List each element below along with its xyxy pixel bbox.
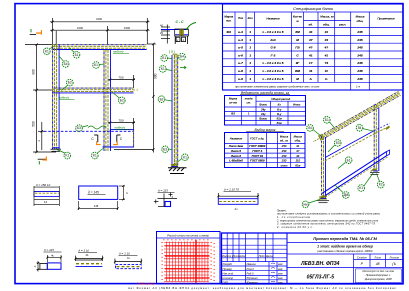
plan middle post xyxy=(103,50,105,151)
svg-text:245: 245 xyxy=(356,38,362,42)
svg-text:расстановка и баланс клапана к: расстановка и баланс клапана крепл. 2008… xyxy=(317,249,374,253)
svg-text:6М: 6М xyxy=(295,30,300,34)
3d right post xyxy=(373,105,375,172)
svg-text:Дата: Дата xyxy=(265,255,273,258)
svg-text:1: 1 xyxy=(249,46,251,50)
svg-text:Лист 4мм: Лист 4мм xyxy=(228,144,244,148)
svg-text:б1м: б1м xyxy=(277,117,282,121)
svg-text:Спецификация балок: Спецификация балок xyxy=(293,6,334,11)
svg-text:( a ): ( a ) xyxy=(169,50,175,54)
svg-text:Б2: Б2 xyxy=(160,97,164,101)
svg-text:1: 1 xyxy=(249,69,251,73)
svg-text:Масса, кг: Масса, кг xyxy=(320,15,334,19)
title block xyxy=(222,233,404,284)
svg-text:ГОСТ 8509: ГОСТ 8509 xyxy=(250,159,265,163)
plan bottom-right rail outline xyxy=(110,130,133,147)
svg-text:ммг: ммг xyxy=(278,272,283,275)
3d left post xyxy=(321,137,323,199)
svg-text:245: 245 xyxy=(356,77,362,81)
svg-text:набел/у: набел/у xyxy=(113,50,124,54)
svg-text:05ГЛ3-ЛГ-5: 05ГЛ3-ЛГ-5 xyxy=(307,274,335,280)
svg-text:L-40x40x5: L-40x40x5 xyxy=(263,30,284,34)
svg-text:11: 11 xyxy=(309,69,312,73)
detail B plate xyxy=(79,186,118,199)
svg-text:ммг: ммг xyxy=(278,277,283,280)
svg-text:K1: K1 xyxy=(65,154,69,158)
plan inner dim (right lower) xyxy=(108,118,135,131)
svg-text:б4: б4 xyxy=(358,126,362,130)
svg-text:L-40x40x5: L-40x40x5 xyxy=(263,61,284,65)
svg-text:б1м: б1м xyxy=(277,121,282,125)
svg-text:4?: 4? xyxy=(308,46,313,50)
svg-text:Выбор марок: Выбор марок xyxy=(255,128,276,132)
svg-text:итог: итог xyxy=(281,163,288,167)
svg-text:1: 1 xyxy=(249,61,251,65)
svg-text:Разраб.: Разраб. xyxy=(223,262,233,266)
svg-text:1600: 1600 xyxy=(77,26,83,30)
reinforcement mesh box xyxy=(157,232,221,284)
svg-text:б3: б3 xyxy=(336,141,340,145)
svg-text:С-9: С-9 xyxy=(271,46,276,50)
plan left dimension line xyxy=(25,45,56,152)
svg-text:41: 41 xyxy=(296,144,300,148)
svg-text:Итог: Итог xyxy=(293,103,301,107)
svg-text:М: М xyxy=(296,77,299,81)
svg-text:набел/у: набел/у xyxy=(115,126,126,130)
svg-text:Юрченко: Юрченко xyxy=(247,280,259,284)
elevation column xyxy=(171,55,173,167)
svg-text:Кол-во: Кол-во xyxy=(293,15,303,19)
svg-text:ГИП: ГИП xyxy=(223,280,228,284)
svg-text:145: 145 xyxy=(94,204,99,208)
svg-text:ммг: ммг xyxy=(278,281,283,284)
svg-text:250: 250 xyxy=(281,149,287,153)
svg-text:Б2: Б2 xyxy=(120,99,124,103)
svg-text:750: 750 xyxy=(118,75,123,79)
svg-text:и-5: и-5 xyxy=(238,46,243,50)
svg-text:245: 245 xyxy=(356,61,362,65)
svg-text:4ч: 4ч xyxy=(234,207,238,211)
svg-text:1500: 1500 xyxy=(124,26,130,30)
svg-text:110: 110 xyxy=(296,159,301,163)
svg-text:245: 245 xyxy=(356,30,362,34)
svg-text:L-40x40x5: L-40x40x5 xyxy=(263,77,284,81)
svg-text:41: 41 xyxy=(324,30,329,34)
svg-text:и-7: и-7 xyxy=(238,61,243,65)
svg-text:Листов: Листов xyxy=(388,255,399,259)
svg-text:?4: ?4 xyxy=(324,61,328,65)
svg-text:Б1: Б1 xyxy=(162,56,166,60)
svg-text:Лист 6: Лист 6 xyxy=(230,154,241,158)
svg-text:K1: K1 xyxy=(161,67,165,71)
svg-text:ст.: ст. xyxy=(246,101,251,105)
svg-text:Стадия: Стадия xyxy=(357,255,367,259)
svg-text:245: 245 xyxy=(356,46,362,50)
plan post bases xyxy=(51,149,62,151)
plan top beam xyxy=(52,44,147,46)
svg-text:общ.: общ. xyxy=(323,23,330,27)
bottom extension line to right dim xyxy=(114,149,153,151)
svg-text:47: 47 xyxy=(308,38,313,42)
svg-text:ФЗ: ФЗ xyxy=(231,112,235,116)
svg-text:Б-у: Б-у xyxy=(277,108,282,112)
svg-text:Б1: Б1 xyxy=(325,118,329,122)
svg-text:1: 1 xyxy=(249,30,251,34)
svg-text:расч.: расч. xyxy=(338,23,346,27)
svg-text:ГОСТ 19: ГОСТ 19 xyxy=(252,154,264,158)
svg-text:1 этап: найдено время на обмер: 1 этап: найдено время на обмер xyxy=(317,245,373,249)
svg-text:900: 900 xyxy=(154,73,158,79)
svg-text:и-6: и-6 xyxy=(238,53,243,57)
plan green element labels xyxy=(44,48,51,55)
svg-text:C - C: C - C xyxy=(176,20,184,24)
svg-text:нм: нм xyxy=(304,203,308,207)
3d middle rail dashed xyxy=(325,131,374,158)
svg-text:Общий расход: Общий расход xyxy=(271,97,290,101)
svg-text:ГОСТ и др.: ГОСТ и др. xyxy=(250,137,264,141)
svg-text:250: 250 xyxy=(281,154,287,158)
svg-text:Проект переезда ТМ4. № 05-ГМ: Проект переезда ТМ4. № 05-ГМ xyxy=(313,236,377,241)
svg-text:Б4: Б4 xyxy=(64,62,68,66)
svg-text:поз.: поз. xyxy=(226,19,232,23)
svg-text:K1: K1 xyxy=(183,155,187,159)
svg-text:ГОСТ 19903: ГОСТ 19903 xyxy=(249,144,265,148)
svg-text:Б3: Б3 xyxy=(163,147,167,151)
svg-text:ед.: ед. xyxy=(309,23,313,27)
svg-text:2x4: 2x4 xyxy=(269,38,275,42)
svg-text:№док: №док xyxy=(239,255,246,258)
svg-text:б4: б4 xyxy=(308,126,312,130)
orange fragment mark top-left xyxy=(30,34,36,36)
svg-text:24у: 24у xyxy=(260,108,266,112)
svg-text:Г-2: Г-2 xyxy=(271,53,276,57)
svg-text:Всего: Всего xyxy=(259,117,267,121)
3d top rail xyxy=(319,91,399,136)
svg-text:при монтаже элементов рамы сва: при монтаже элементов рамы сварное соеди… xyxy=(235,85,320,89)
svg-text:1: 1 xyxy=(249,77,251,81)
svg-text:Кол: Кол xyxy=(248,16,253,20)
svg-text:Расход стали на сетку и анкер: Расход стали на сетку и анкер xyxy=(167,233,209,237)
svg-text:K2: K2 xyxy=(379,183,383,187)
svg-text:Поз: Поз xyxy=(238,16,244,20)
svg-text:д = 115: д = 115 xyxy=(44,248,54,252)
3d post bases xyxy=(318,173,380,203)
svg-text:245: 245 xyxy=(356,53,362,57)
svg-text:ВМ: ВМ xyxy=(295,69,300,73)
svg-text:ммг: ммг xyxy=(278,263,283,266)
svg-text:4?: 4? xyxy=(323,46,328,50)
svg-text:Лист 5: Лист 5 xyxy=(230,149,241,153)
svg-text:Провер.: Провер. xyxy=(223,267,233,271)
svg-text:1?: 1? xyxy=(309,61,313,65)
svg-text:48: 48 xyxy=(376,262,380,266)
svg-text:д = 1.15 Гй: д = 1.15 Гй xyxy=(224,188,239,192)
svg-text:41: 41 xyxy=(308,30,313,34)
svg-text:М: М xyxy=(296,38,299,42)
svg-text:Раб.й: Раб.й xyxy=(247,271,255,275)
svg-text:1: 1 xyxy=(249,38,251,42)
3d bottom plank (blue band) xyxy=(322,152,387,194)
svg-text:ГОСТ 4: ГОСТ 4 xyxy=(252,149,262,153)
svg-text:общ.: общ. xyxy=(357,19,364,23)
svg-text:и-3: и-3 xyxy=(238,30,243,34)
svg-text:245: 245 xyxy=(356,69,362,73)
orange fragment mark bottom-left xyxy=(38,158,46,160)
svg-text:и-4: и-4 xyxy=(238,38,243,42)
svg-text:ДМ: ДМ xyxy=(343,193,348,197)
svg-text:Название: Название xyxy=(266,17,280,21)
svg-text:Б1: Б1 xyxy=(347,158,351,162)
svg-text:5х100 шучйчдт: 5х100 шучйчдт xyxy=(137,282,156,286)
mesh red dots xyxy=(162,239,215,283)
svg-text:эл-та: эл-та xyxy=(229,101,237,105)
svg-text:24у: 24у xyxy=(260,112,266,116)
svg-text:ммг: ммг xyxy=(278,268,283,271)
svg-text:11: 11 xyxy=(325,69,328,73)
mesh red grid xyxy=(164,242,209,282)
svg-text:3100: 3100 xyxy=(96,17,102,21)
svg-text:Б4: Б4 xyxy=(180,55,184,59)
svg-text:Б-у: Б-у xyxy=(277,112,282,116)
svg-text:общ.: общ. xyxy=(295,139,302,143)
svg-text:900: 900 xyxy=(32,69,36,75)
svg-text:(Ъ: (Ъ xyxy=(392,262,396,266)
svg-text:Примечание: Примечание xyxy=(377,17,395,21)
svg-text:L-50x50x5: L-50x50x5 xyxy=(229,159,243,163)
svg-text:д = 145: д = 145 xyxy=(88,191,99,195)
svg-text:ед., кг: ед., кг xyxy=(280,139,289,143)
svg-text:Лист: Лист xyxy=(373,255,382,259)
3d green labels xyxy=(307,125,314,132)
svg-text:Ант Формат А3 (ЛЕВЗ.ВН.ФПЗ4 д: Ант Формат А3 (ЛЕВЗ.ВН.ФПЗ4 документ: не… xyxy=(128,286,396,290)
svg-text:Масса: Масса xyxy=(356,15,365,19)
svg-text:750: 750 xyxy=(118,118,123,122)
svg-text:ЛЕВЗ.ВН. ФПЗ4: ЛЕВЗ.ВН. ФПЗ4 xyxy=(300,261,340,267)
svg-text:1: 1 xyxy=(249,53,251,57)
svg-text:и-8: и-8 xyxy=(238,69,243,73)
svg-text:41: 41 xyxy=(324,53,329,57)
svg-text:б1м: б1м xyxy=(295,163,300,167)
svg-text:Институт по дип. ин-тов: Институт по дип. ин-тов xyxy=(363,270,395,273)
svg-text:K1: K1 xyxy=(94,63,98,67)
elevation C-C section detail xyxy=(161,25,170,44)
specification table xyxy=(223,4,404,90)
svg-text:набел/у: набел/у xyxy=(59,96,70,100)
svg-text:Юрченко: Юрченко xyxy=(247,276,259,280)
section marks C-C in plan xyxy=(94,135,120,142)
svg-text:Иванов: Иванов xyxy=(247,262,257,266)
plan view dimension lines top xyxy=(50,18,150,47)
svg-text:Б3: Б3 xyxy=(77,126,81,130)
svg-text:14: 14 xyxy=(44,200,48,204)
svg-text:Название: Название xyxy=(230,137,243,141)
svg-text:и-9: и-9 xyxy=(238,77,243,81)
svg-text:Всего: Всего xyxy=(259,103,267,107)
svg-text:д = 1 Ы: д = 1 Ы xyxy=(78,249,89,253)
svg-text:250: 250 xyxy=(281,159,287,163)
svg-text:Нач.отд.: Нач.отд. xyxy=(223,271,235,275)
svg-text:м: м xyxy=(296,19,298,23)
svg-text:ФЗ: ФЗ xyxy=(226,30,230,34)
svg-text:Б2: Б2 xyxy=(68,81,72,85)
svg-text:Ведомость расхода стали, кг: Ведомость расхода стали, кг xyxy=(241,91,290,95)
plan bottom hidden line (dashed blue) xyxy=(44,130,134,132)
detail A beam xyxy=(34,186,59,188)
svg-text:д = 150 1й: д = 150 1й xyxy=(36,183,51,187)
svg-text:K1: K1 xyxy=(93,154,97,158)
svg-text:44: 44 xyxy=(296,154,300,158)
svg-text:41: 41 xyxy=(308,53,313,57)
svg-text:L-40x40x5: L-40x40x5 xyxy=(263,69,284,73)
svg-text:4?: 4? xyxy=(296,149,300,153)
plan inner dim (right upper 1500) xyxy=(108,75,135,88)
svg-text:Подп: Подп xyxy=(259,255,266,258)
svg-text:K1: K1 xyxy=(359,186,363,190)
svg-text:44: 44 xyxy=(324,38,329,42)
svg-text:K1: K1 xyxy=(45,49,49,53)
svg-text:Ром.й: Ром.й xyxy=(247,267,255,271)
plan middle beam xyxy=(52,87,133,89)
svg-text:4. отметка 20.00 у.г.: 4. отметка 20.00 у.г. xyxy=(277,226,313,229)
svg-text:Н.контр.: Н.контр. xyxy=(223,276,235,280)
svg-text:д = 115: д = 115 xyxy=(158,189,168,193)
svg-text:д = 1 1й: д = 1 1й xyxy=(119,251,130,255)
svg-text:250: 250 xyxy=(281,144,287,148)
svg-text:Днепропетровск, 2008: Днепропетровск, 2008 xyxy=(364,278,392,281)
svg-text:500: 500 xyxy=(32,121,36,127)
svg-text:1-я: 1-я xyxy=(356,85,360,89)
plan right dimension line xyxy=(147,44,156,153)
svg-text:41.: 41. xyxy=(86,253,90,257)
svg-text:Б1: Б1 xyxy=(75,53,79,57)
elevation ground hatch xyxy=(168,168,187,174)
svg-text:Промжелдортранс г.: Промжелдортранс г. xyxy=(366,274,391,277)
plan left post xyxy=(52,44,54,149)
